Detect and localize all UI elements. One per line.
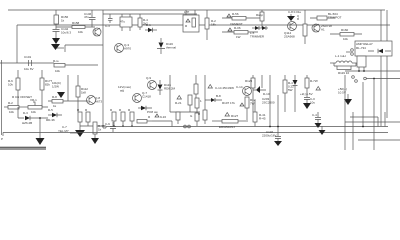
svg-text:10u/6.3: 10u/6.3 [61,31,71,35]
svg-text:R123: R123 [245,79,253,83]
cap C-9 [105,122,116,132]
diode D-5 lower [46,108,62,122]
svg-text:10k: 10k [78,30,83,34]
svg-text:2200u/16V: 2200u/16V [262,134,277,138]
svg-text:C-9: C-9 [105,122,110,126]
svg-text:D-3: D-3 [23,111,28,115]
ground [52,38,60,44]
resistor R vertical x196 [194,75,198,100]
mid box outline [170,75,200,112]
transistor Q103 [115,43,132,53]
svg-text:R158: R158 [72,21,80,25]
resistor R12 7W [245,97,256,120]
svg-text:1k: 1k [53,104,57,108]
resistor R112 vertical [76,75,88,112]
svg-text:1/2W: 1/2W [52,85,59,89]
capacitor + gnd right of Q114 [287,10,302,21]
lower mid components [152,114,172,127]
ground right [91,138,99,144]
lower x318 cluster [312,112,326,135]
capacitor C101 [24,55,34,71]
resistor horizontal x138 [137,115,152,123]
transistor Q-7 [133,91,152,103]
resistor R158 [72,21,85,34]
connector left [1,133,3,142]
svg-text:TRIMPOT: TRIMPOT [328,16,342,20]
warning R-21 [175,96,182,106]
svg-text:10k: 10k [343,37,348,41]
svg-text:R127: R127 [231,114,239,118]
wire top rail +B [8,9,385,11]
svg-text:thermal: thermal [166,46,176,50]
resistor R-48 [93,122,105,138]
resistor x197 [195,98,202,115]
resistor x197 lower [190,113,199,126]
vertical x345 [344,75,346,150]
diode D-8 [138,106,159,114]
svg-text:10u: 10u [310,101,315,105]
resistor R101 [53,59,98,73]
resistor Rsnp [256,10,264,28]
wire left input line [0,25,54,63]
cap C-7 [58,125,80,133]
resistor horizontal ERGB [212,120,248,130]
transistor Q101 [93,28,101,36]
terminal circles [346,49,353,56]
svg-text:C-8 0.01u: C-8 0.01u [288,10,302,14]
diode D103 [22,111,48,125]
svg-text:R-0: R-0 [296,15,300,20]
wire to diode [18,107,24,118]
resistor R106 second [222,26,258,39]
svg-text:18k: 18k [211,23,216,27]
wire x68 vertical [67,75,69,101]
svg-text:10u 6V: 10u 6V [24,67,34,71]
resistor R-41 vertical low [253,100,266,127]
vertical wires center-right [270,75,278,127]
ground big [75,128,85,137]
svg-text:1W: 1W [236,35,241,39]
svg-text:C1418: C1418 [142,95,151,99]
resistor R1-56 top [222,12,260,26]
svg-text:5W: 5W [288,88,293,92]
ground right mid [344,94,352,105]
diode D116b with bar [158,80,176,95]
resistor R177 [40,70,53,107]
wire second rail [17,24,390,26]
resistor x178 vertical [176,112,180,124]
trimpot label [310,12,342,20]
diode D116 thermal [157,38,176,54]
lower middle cluster x110-150 [110,108,134,127]
wire mid-left [56,26,95,28]
transistor Q-8 [87,96,103,105]
LTP box [183,10,199,32]
svg-text:B-8: B-8 [216,94,221,98]
svg-text:D-1: D-1 [146,23,151,27]
svg-text:C-4: C-4 [312,113,317,117]
svg-text:adj: adj [120,89,124,93]
wire y70 right [345,70,400,72]
ground [57,92,65,98]
svg-text:LTP: LTP [184,10,189,14]
svg-text:R-2: R-2 [8,101,13,105]
svg-text:R-8: R-8 [52,95,57,99]
pot VR1 [28,98,48,114]
wire y122 right [345,121,400,123]
diode D101 [145,23,157,32]
resistor pair vertical [77,108,106,126]
svg-text:R-06: R-06 [234,26,241,30]
svg-text:ERGB2ANJ: ERGB2ANJ [219,125,235,129]
warning R127 [225,113,239,119]
warning triangle [208,85,212,89]
wire double top line [103,13,197,15]
resistor R-4 5W vertical [283,75,294,112]
svg-text:9-16: 9-16 [160,115,166,119]
resistor R-8 horizontal [48,95,88,108]
cap C118 cluster [262,126,282,146]
svg-text:10k: 10k [8,83,13,87]
svg-text:Rsnp: Rsnp [256,13,263,17]
inductor L101 [330,54,362,75]
resistor R-0 (x305 chain) [296,10,307,44]
svg-text:A970: A970 [124,47,131,51]
svg-text:TRIMMER: TRIMMER [250,35,265,39]
IC filter box [120,14,132,31]
wire right verticals [381,10,387,126]
svg-text:82k: 82k [45,83,50,87]
svg-text:+2(-)1.5V: +2(-)1.5V [300,92,313,96]
bottom left gray strip [0,147,46,151]
right column x307 chain [300,75,320,109]
capacitor C142 [53,27,72,38]
resistor R-4 [138,14,148,30]
svg-text:R-45: R-45 [259,117,266,121]
svg-text:R160: R160 [341,28,349,32]
transistor Q-22 with dark emitter [253,75,270,96]
right bottom wires [350,117,378,127]
svg-text:L-1 1uH: L-1 1uH [335,54,346,58]
svg-text:R-56: R-56 [232,12,239,16]
wire + ground [39,118,41,138]
relay coil [357,56,366,71]
svg-text:R-io: R-io [53,59,59,63]
svg-text:D-10: D-10 [263,92,270,96]
diode black down x295 [293,75,298,112]
svg-text:A673: A673 [95,100,102,104]
wire mid connections [65,45,103,52]
resistor R123 vertical [245,75,255,112]
transistor Q114 [284,22,297,39]
svg-text:C-3: C-3 [105,24,110,28]
svg-text:R107 17k: R107 17k [222,101,235,105]
svg-text:10k: 10k [55,69,60,73]
svg-text:VR-1: VR-1 [30,98,37,102]
transistor Q-9 upper [146,76,157,90]
svg-text:A1: A1 [321,28,325,32]
svg-text:7W: 7W [250,102,255,106]
left border line [1,60,3,135]
svg-text:C-14 45C33W: C-14 45C33W [215,86,234,90]
resistor R-6 [8,70,20,107]
svg-text:Q-9: Q-9 [146,76,151,80]
svg-text:47u: 47u [120,20,125,24]
svg-text:P: P [1,137,3,141]
resistor R160 pot [330,28,362,41]
svg-text:1k: 1k [61,19,65,23]
svg-text:C-14: C-14 [236,85,243,89]
diode pair [250,26,268,39]
AMP RELAY box [355,41,392,56]
svg-text:R119 10: R119 10 [338,71,349,75]
right grid verticals [353,79,374,151]
capacitor C103 [105,14,113,28]
transistor Q-20 [236,85,252,96]
capacitor C146 [84,10,96,27]
svg-text:2SC2000: 2SC2000 [262,101,275,105]
svg-text:D-5: D-5 [48,108,53,112]
wire long vertical x103 [102,10,104,128]
resistor R156 [54,10,69,29]
svg-text:RL-734: RL-734 [356,46,366,50]
svg-text:HZ6.2B: HZ6.2B [22,121,32,125]
svg-text:10k: 10k [31,110,36,114]
svg-text:R-21: R-21 [175,101,182,105]
lower center resistor cluster [198,100,207,124]
terminals right top [352,76,400,83]
transistor Q116 [312,24,332,32]
svg-text:C101: C101 [24,55,32,59]
resistor R102 [205,10,216,40]
ground [51,44,60,50]
circles GG [184,125,191,128]
svg-text:2SA968: 2SA968 [284,35,295,39]
bus lines bottom [106,126,388,128]
resistor R-2 horizontal [4,101,28,114]
svg-text:RD-36: RD-36 [46,118,55,122]
svg-text:PO8 ow: PO8 ow [147,110,159,114]
svg-text:1k: 1k [98,128,102,132]
svg-text:1k8: 1k8 [81,91,86,95]
svg-text:R-7W: R-7W [310,79,318,83]
svg-text:10k: 10k [9,110,14,114]
resistor x190 [188,95,192,112]
diode D-car [205,75,222,102]
svg-text:47u: 47u [84,15,89,19]
